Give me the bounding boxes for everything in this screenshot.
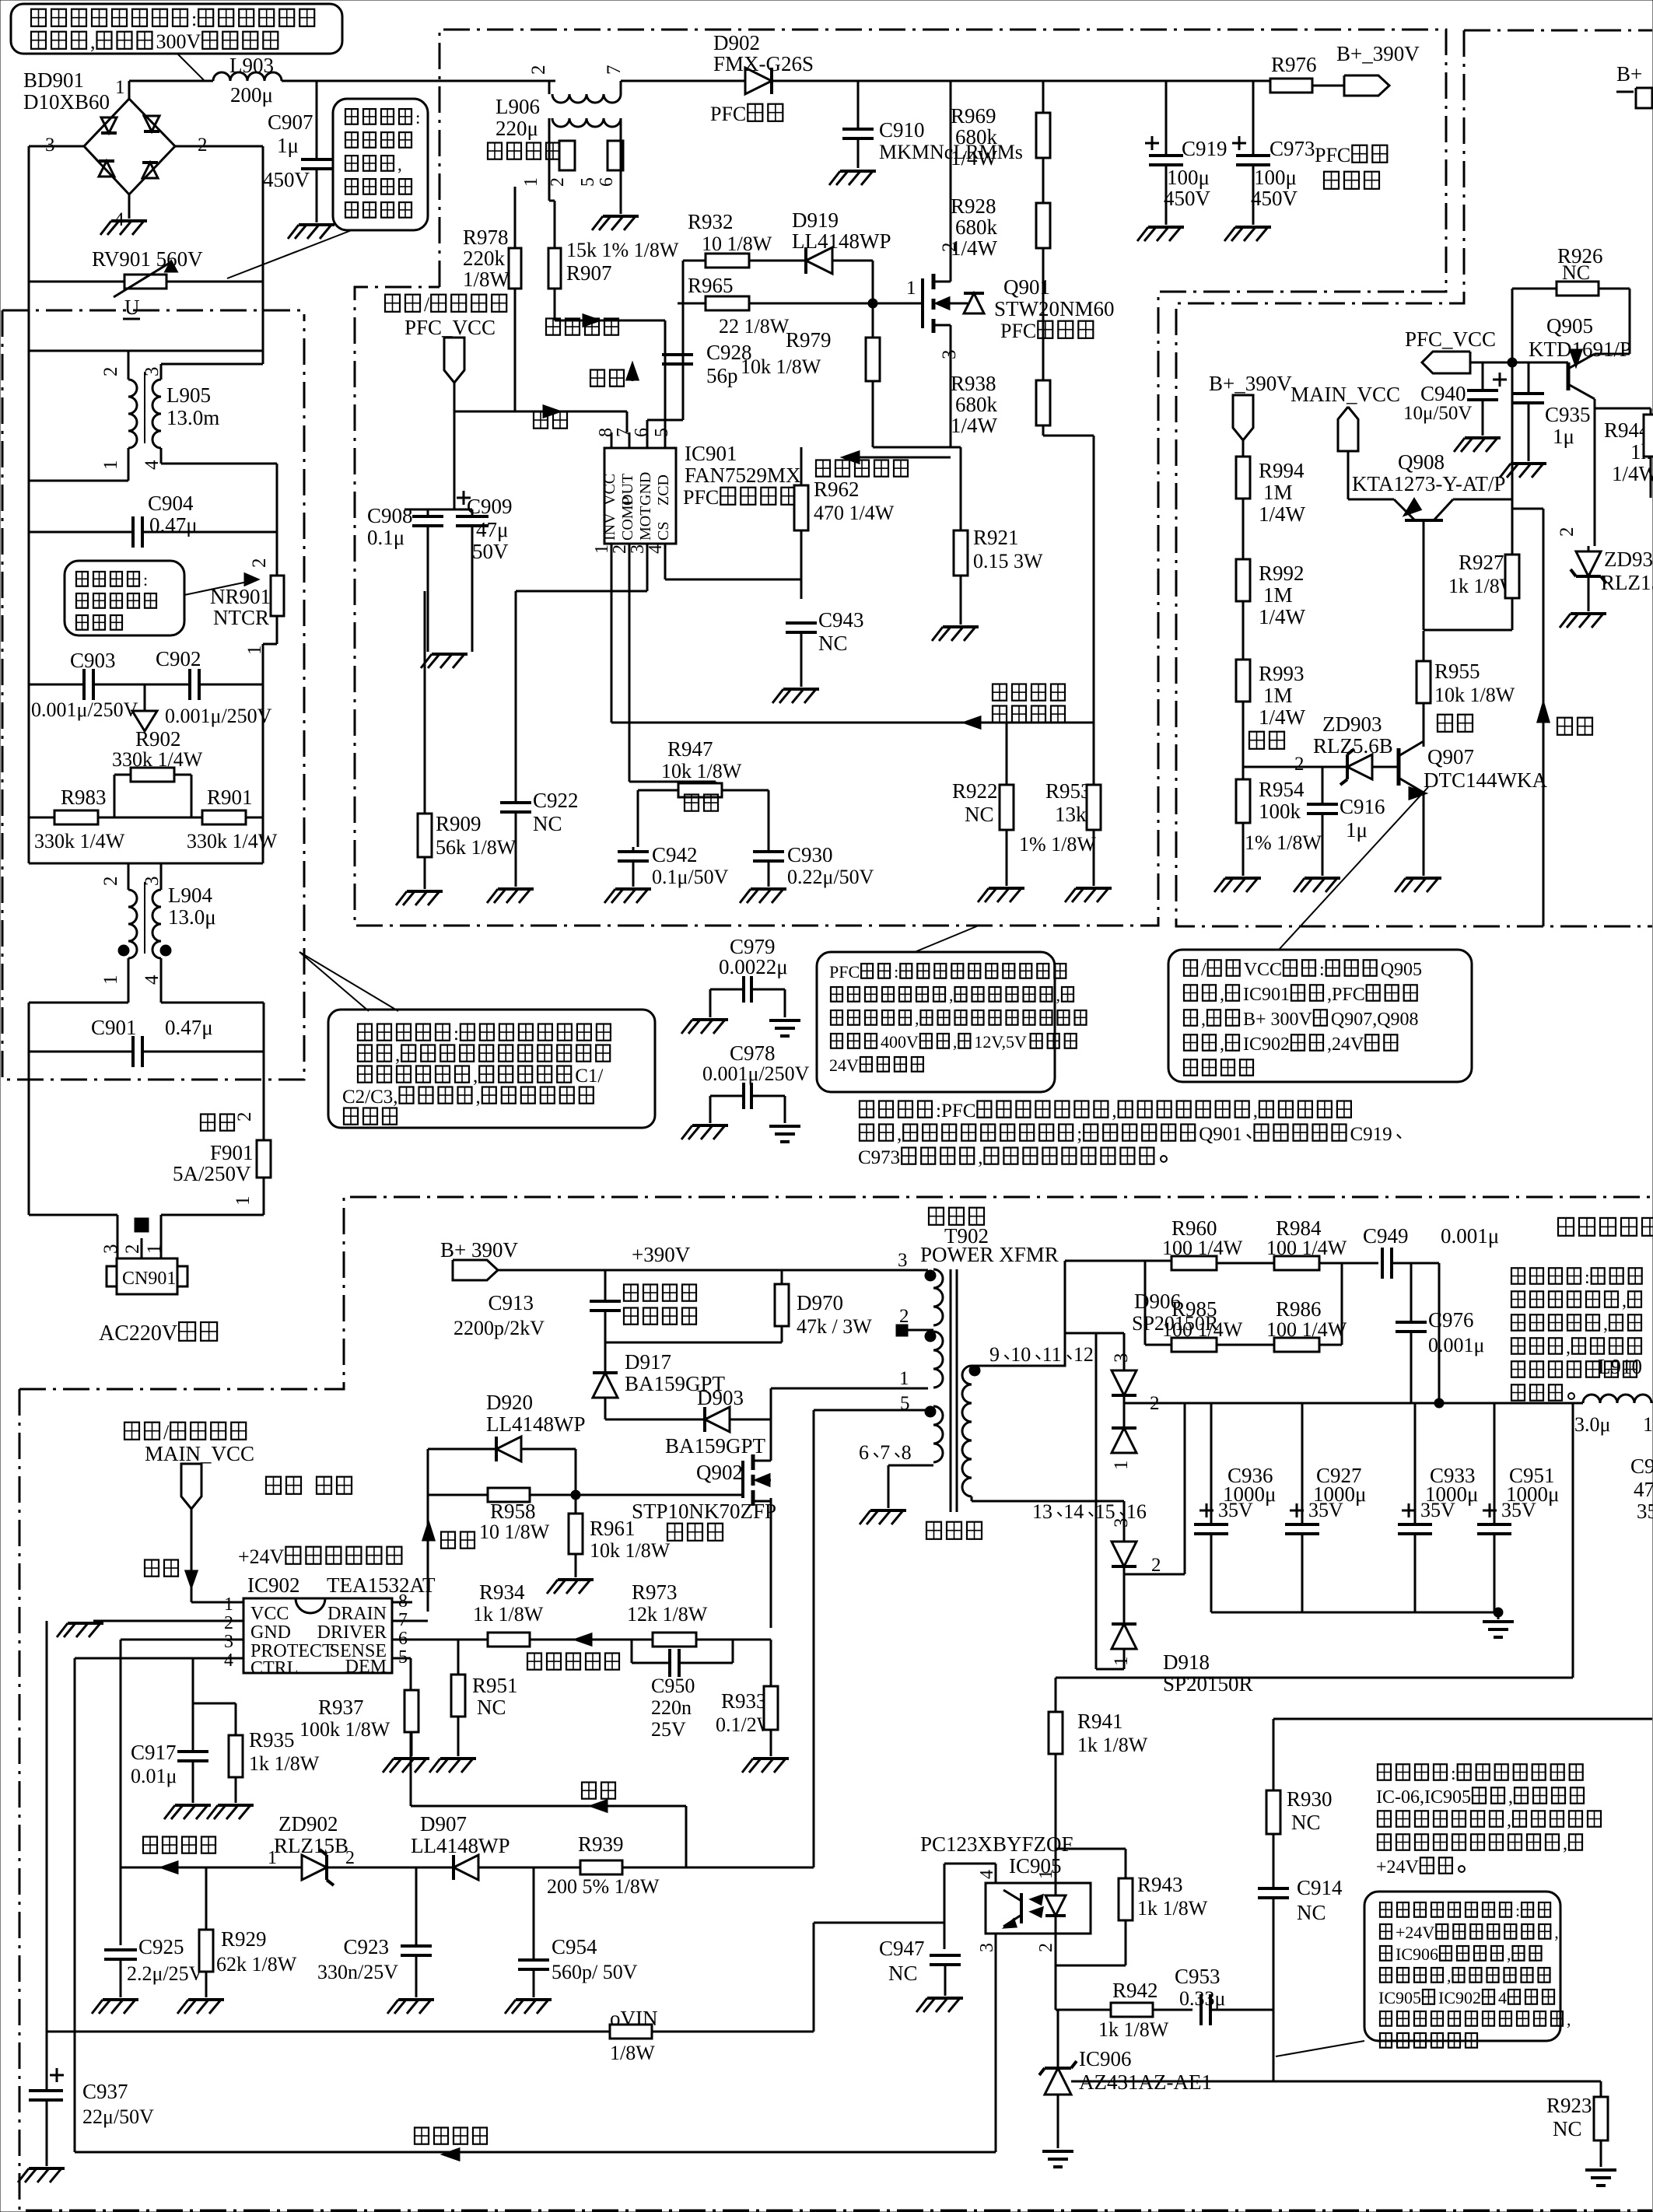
svg-text:25V: 25V: [651, 1718, 686, 1741]
transistor Q901 PFC MOSFET: [906, 243, 1115, 360]
svg-text:2: 2: [1557, 527, 1578, 537]
ground: [1560, 614, 1606, 628]
svg-text:IC906: IC906: [1396, 1944, 1438, 1964]
svg-text:1/4W: 1/4W: [951, 414, 998, 437]
capacitor C935: [1513, 362, 1591, 461]
resistor R961: [569, 1495, 671, 1577]
svg-text:,: ,: [397, 155, 402, 174]
svg-text:,: ,: [476, 1087, 481, 1108]
svg-text:100μ: 100μ: [1167, 166, 1210, 189]
svg-text:2: 2: [100, 877, 121, 887]
svg-text:NC: NC: [818, 632, 848, 655]
resistor R909: [418, 591, 517, 889]
svg-text:D902: D902: [713, 31, 760, 54]
wire: [29, 1215, 264, 1258]
ground: [487, 889, 534, 903]
svg-text:1: 1: [1111, 1657, 1132, 1667]
svg-text:1: 1: [1036, 1870, 1056, 1879]
svg-text:35V: 35V: [1218, 1499, 1253, 1521]
svg-text:0.001μ: 0.001μ: [1441, 1224, 1499, 1248]
capacitor C923: [317, 1867, 432, 1997]
section boundary: EMI filter block: [2, 310, 304, 1080]
ground: [681, 1020, 728, 1034]
svg-text:C935: C935: [1545, 403, 1591, 426]
resistor R994: [1236, 440, 1306, 526]
svg-text:9: 9: [989, 1343, 1000, 1366]
resistor oVIN 1/8W: [610, 2007, 658, 2064]
callout: mains rectifier filter note: [11, 4, 342, 80]
svg-text:/: /: [163, 1421, 170, 1444]
svg-text:35V: 35V: [1637, 1500, 1653, 1523]
resistor R927: [1448, 551, 1519, 630]
svg-text:,: ,: [1622, 1291, 1627, 1311]
resistor R960: [1162, 1216, 1243, 1270]
wire: [605, 1342, 782, 1372]
svg-text:4: 4: [977, 1870, 997, 1879]
resistor R926: [1512, 244, 1630, 362]
svg-text:13.0m: 13.0m: [166, 406, 219, 429]
svg-text:56p: 56p: [706, 364, 738, 387]
svg-text:IC-06,IC905: IC-06,IC905: [1376, 1787, 1471, 1808]
svg-text:,: ,: [1603, 1314, 1608, 1335]
wire: IC902 pin stubs: [75, 1587, 428, 2152]
capacitor C937 electrolytic: [29, 1612, 154, 2166]
connector CN901: [100, 1244, 187, 1295]
svg-text:R907: R907: [566, 261, 612, 285]
wire: [29, 351, 263, 481]
capacitor C976: [1396, 1263, 1484, 1403]
ground: [860, 1510, 906, 1524]
svg-text:D919: D919: [792, 208, 839, 232]
svg-text:RLZ5.6B: RLZ5.6B: [1313, 734, 1393, 758]
svg-text:C909: C909: [467, 495, 513, 518]
capacitor C973 electrolytic: [1232, 81, 1315, 225]
svg-text:4: 4: [224, 1650, 233, 1671]
svg-text:,: ,: [1201, 1010, 1206, 1030]
wire: [621, 80, 1271, 82]
svg-text:R994: R994: [1259, 459, 1305, 482]
svg-text:C908: C908: [367, 504, 413, 527]
resistor R901: [114, 786, 278, 852]
diode D907: [411, 1812, 814, 1880]
svg-text:DRAIN: DRAIN: [327, 1604, 387, 1624]
svg-text::: :: [454, 1024, 459, 1045]
svg-text:C950: C950: [651, 1675, 695, 1697]
resistor R930: [1266, 1719, 1333, 1888]
svg-text:Q905: Q905: [1381, 960, 1422, 980]
svg-text:IC902: IC902: [1243, 1034, 1290, 1055]
svg-text:2200p/2kV: 2200p/2kV: [454, 1317, 545, 1339]
zener ZD903: [1243, 712, 1399, 785]
svg-text:F901: F901: [210, 1141, 254, 1164]
wire: D918 output to rail: [1124, 1403, 1185, 1574]
svg-text:1/8W: 1/8W: [610, 2042, 655, 2064]
svg-text:,24V: ,24V: [1327, 1034, 1364, 1055]
wire: SENSE row: [392, 1639, 771, 1640]
svg-text:14: 14: [1063, 1500, 1084, 1523]
svg-text:+24V: +24V: [1396, 1923, 1434, 1942]
svg-text:IC901: IC901: [685, 442, 737, 465]
svg-text:680k: 680k: [955, 215, 998, 239]
svg-text:IC901: IC901: [1243, 985, 1290, 1005]
svg-text:0.001μ: 0.001μ: [1428, 1334, 1484, 1356]
svg-text:R921: R921: [973, 526, 1019, 549]
svg-text:VCC: VCC: [1244, 960, 1282, 980]
svg-text:1k 1/8W: 1k 1/8W: [1137, 1897, 1208, 1920]
label: supply down arrow: [145, 1509, 197, 1587]
svg-text:R976: R976: [1271, 53, 1317, 76]
svg-text:0.47μ: 0.47μ: [165, 1016, 213, 1039]
ground: [772, 689, 819, 703]
bridge rectifier BD901: [23, 68, 208, 230]
svg-text:1: 1: [115, 77, 125, 98]
capacitor C914: [1258, 1876, 1343, 2010]
dual diode D918 SP20150R: [1096, 1333, 1253, 1696]
ground: [1065, 888, 1112, 902]
svg-text:10k 1/8W: 10k 1/8W: [661, 760, 742, 782]
svg-text:R938: R938: [951, 372, 996, 395]
wire: ref row: [1071, 2081, 1650, 2083]
svg-text:,: ,: [1112, 1101, 1116, 1122]
ground: [429, 1759, 476, 1773]
wire: [647, 261, 683, 432]
capacitor C932: [1630, 1454, 1653, 1523]
svg-text::: :: [1319, 960, 1325, 980]
resistor R935: [193, 1703, 320, 1803]
capacitor C930: [753, 843, 874, 888]
svg-text:U: U: [124, 296, 140, 319]
svg-text:2: 2: [548, 177, 568, 187]
svg-text:ZD931: ZD931: [1604, 548, 1653, 571]
wire: output voltage sample row: [611, 562, 1094, 723]
svg-text:R943: R943: [1137, 1873, 1183, 1896]
wire: [771, 1388, 928, 1461]
svg-text:CN901: CN901: [122, 1269, 176, 1289]
resistor R934: [473, 1580, 544, 1647]
IC906 AZ431AZ shunt regulator: [1039, 1965, 1212, 2148]
svg-text:4: 4: [142, 975, 163, 985]
svg-text:11: 11: [1042, 1343, 1062, 1366]
svg-text:PFC: PFC: [683, 486, 719, 509]
ground: [1137, 227, 1184, 241]
svg-text:200 5% 1/8W: 200 5% 1/8W: [547, 1875, 660, 1898]
svg-text:RLZ15B: RLZ15B: [274, 1834, 348, 1857]
svg-text:C901: C901: [91, 1016, 137, 1039]
svg-text:2.2μ/25V: 2.2μ/25V: [127, 1962, 204, 1985]
resistor R954: [1236, 767, 1322, 876]
svg-text:R953: R953: [1045, 779, 1091, 803]
svg-text:PFC: PFC: [1000, 320, 1036, 342]
resistor R947 timing: [638, 737, 769, 847]
svg-text:1: 1: [224, 1594, 233, 1615]
svg-text:R942: R942: [1112, 1979, 1158, 2002]
wire: oVIN row: [47, 1864, 996, 2032]
capacitor C949: [1363, 1224, 1499, 1403]
svg-text:PFC: PFC: [1315, 144, 1350, 166]
svg-text:;: ;: [1077, 1124, 1082, 1145]
ground: [604, 889, 651, 903]
earth symbol: [132, 684, 157, 731]
resistor R993: [1236, 601, 1306, 767]
resistor R969: [951, 81, 1050, 203]
svg-text:1μ: 1μ: [277, 134, 299, 157]
svg-text:C902: C902: [156, 647, 201, 670]
ground: [92, 2000, 138, 2014]
resistor R943: [1056, 1849, 1208, 1965]
ground: [932, 627, 979, 641]
svg-text:15k 1% 1/8W: 15k 1% 1/8W: [566, 239, 679, 261]
svg-text:,: ,: [1567, 2010, 1571, 2029]
capacitor C951 electrolytic: [1477, 1403, 1559, 1612]
transistor Q902 STP10NK70ZFP: [632, 1454, 776, 1541]
svg-text:1M: 1M: [1263, 684, 1293, 707]
capacitor C933 electrolytic: [1398, 1403, 1478, 1612]
svg-text:10k 1/8W: 10k 1/8W: [1434, 684, 1515, 706]
section boundary: VCC control block: [1176, 30, 1652, 926]
ground: [1500, 464, 1546, 478]
svg-text:Q905: Q905: [1546, 314, 1593, 338]
resistor R922: [952, 723, 1014, 886]
capacitor C936 electrolytic: [1194, 1403, 1276, 1612]
transformer T902 labels: [920, 1208, 1059, 1539]
svg-text:560p/ 50V: 560p/ 50V: [552, 1961, 638, 1983]
svg-text:DEM: DEM: [345, 1657, 387, 1677]
svg-text:R993: R993: [1259, 662, 1305, 685]
section boundary: main converter block: [19, 1197, 1652, 2210]
capacitor C908: [367, 504, 454, 652]
ground: [1585, 2170, 1616, 2186]
resistor D970 damper: [775, 1270, 872, 1342]
resistor R953: [1019, 723, 1101, 886]
svg-text:C910: C910: [879, 118, 925, 142]
svg-text:R929: R929: [221, 1927, 267, 1951]
ground: [740, 889, 786, 903]
svg-text:L904: L904: [168, 884, 212, 907]
svg-text:2: 2: [234, 1112, 255, 1122]
svg-text:Q907,Q908: Q907,Q908: [1331, 1010, 1419, 1030]
svg-text:,: ,: [473, 1066, 478, 1087]
ground: [916, 1998, 963, 2012]
svg-text:FAN7529MX: FAN7529MX: [685, 464, 801, 487]
svg-text:0.001μ/250V: 0.001μ/250V: [165, 705, 272, 727]
svg-text::: :: [1585, 1268, 1590, 1288]
label: regulator protect: [266, 1477, 352, 1494]
ground: [681, 1125, 728, 1139]
diode D917: [593, 1350, 726, 1419]
svg-text:R954: R954: [1259, 778, 1305, 801]
svg-text:450V: 450V: [263, 168, 310, 191]
svg-text:D906: D906: [1134, 1290, 1181, 1313]
capacitor C943: [786, 599, 864, 687]
ground: [1224, 227, 1271, 241]
svg-text:BA159GPT: BA159GPT: [665, 1434, 766, 1458]
svg-text:100μ: 100μ: [1254, 166, 1297, 189]
resistor R965: [665, 274, 923, 338]
svg-text:4: 4: [1498, 1988, 1507, 2007]
svg-text:VCC: VCC: [601, 474, 618, 506]
svg-text:NC: NC: [1297, 1901, 1326, 1924]
svg-text:2: 2: [345, 1848, 355, 1868]
svg-text:0.1μ: 0.1μ: [367, 526, 404, 549]
svg-text:47k / 3W: 47k / 3W: [797, 1315, 872, 1338]
svg-text:IC905: IC905: [1378, 1988, 1421, 2007]
resistor R921: [954, 447, 1043, 625]
svg-text::: :: [1451, 1764, 1456, 1784]
ground: [18, 2168, 65, 2182]
svg-text:ZD903: ZD903: [1322, 712, 1382, 736]
svg-text:PFC_VCC: PFC_VCC: [1405, 327, 1496, 351]
svg-text:3: 3: [1111, 1353, 1132, 1363]
ground: [1395, 878, 1441, 892]
svg-text:D918: D918: [1163, 1650, 1210, 1674]
resistor R939: [547, 1832, 660, 1898]
net flag PFC_VCC left: [1405, 327, 1496, 373]
svg-text::: :: [143, 570, 148, 590]
ground: [829, 171, 876, 185]
wire: [129, 80, 555, 82]
wire: [454, 383, 627, 509]
svg-text:6: 6: [859, 1441, 869, 1464]
svg-text:,: ,: [1507, 1811, 1511, 1831]
svg-text:,: ,: [1563, 1834, 1567, 1854]
svg-text:24V: 24V: [829, 1055, 859, 1075]
svg-text:LL4148WP: LL4148WP: [486, 1412, 586, 1436]
svg-text:R939: R939: [578, 1832, 624, 1856]
svg-text:0.0022μ: 0.0022μ: [719, 955, 788, 978]
resistor R976: [1270, 53, 1344, 93]
svg-text:POWER XFMR: POWER XFMR: [920, 1243, 1059, 1266]
wire: opto LED cathode to R942: [1056, 2009, 1111, 2011]
svg-text:680k: 680k: [955, 125, 998, 149]
svg-text:13k: 13k: [1055, 803, 1087, 826]
capacitor C947: [879, 1937, 961, 1996]
ground: [387, 2000, 434, 2014]
svg-text:62k 1/8W: 62k 1/8W: [216, 1953, 297, 1976]
wire: [549, 118, 621, 134]
label: on/off control PFC_VCC: [385, 293, 506, 339]
ground: [164, 1805, 211, 1819]
svg-text:8: 8: [902, 1441, 912, 1464]
svg-text:470 1/4W: 470 1/4W: [814, 502, 895, 524]
svg-text:,: ,: [1507, 1944, 1511, 1964]
ground: [288, 225, 334, 239]
dual diode D906 SP20150R: [1111, 1290, 1219, 1501]
svg-text:C913: C913: [488, 1291, 534, 1314]
svg-text:3: 3: [224, 1632, 233, 1652]
svg-text:,: ,: [915, 1009, 919, 1028]
svg-text:7: 7: [880, 1441, 890, 1464]
svg-text:100k: 100k: [1259, 800, 1301, 823]
diode D919: [792, 208, 891, 303]
svg-text:B+_390V: B+_390V: [1336, 42, 1420, 65]
inductor L910: [1574, 1355, 1653, 1436]
wire: [404, 509, 472, 511]
svg-text:C1/: C1/: [575, 1066, 603, 1087]
svg-text:Q907: Q907: [1427, 745, 1474, 768]
resistor R932: [683, 210, 806, 268]
resistor R942: [1098, 1979, 1192, 2041]
resistor R973: [627, 1580, 708, 1647]
svg-text:B+_390V: B+_390V: [1209, 372, 1292, 395]
resistor R986: [1217, 1263, 1347, 1352]
svg-text:Q902: Q902: [696, 1461, 743, 1484]
svg-text:CTRL: CTRL: [250, 1658, 298, 1678]
svg-text:C940: C940: [1420, 382, 1466, 405]
capacitor C978: [702, 1041, 810, 1123]
svg-text:470μ: 470μ: [1634, 1478, 1653, 1501]
svg-text:,: ,: [1253, 1101, 1258, 1122]
svg-text:R962: R962: [814, 478, 860, 501]
svg-text:3: 3: [977, 1943, 997, 1952]
svg-text:1/4W: 1/4W: [951, 146, 998, 170]
svg-text:C973: C973: [858, 1147, 900, 1168]
svg-text:100k 1/8W: 100k 1/8W: [299, 1718, 390, 1741]
svg-text:C978: C978: [730, 1041, 776, 1065]
ground: [742, 1759, 789, 1773]
svg-text:INV: INV: [601, 513, 618, 541]
svg-text:TEA1532AT: TEA1532AT: [327, 1573, 436, 1597]
capacitor C904: [29, 492, 277, 548]
svg-text:OUT: OUT: [619, 474, 636, 506]
svg-text:PC123XBYFZOF: PC123XBYFZOF: [920, 1832, 1073, 1856]
svg-text:STW20NM60: STW20NM60: [994, 297, 1115, 320]
label: PFC bulk caps: [1315, 144, 1387, 189]
svg-text:1/4W: 1/4W: [1259, 502, 1306, 526]
transformer T902 core: [951, 1269, 957, 1512]
ground: [383, 1759, 429, 1773]
svg-text:R973: R973: [632, 1580, 678, 1604]
svg-text:,: ,: [1566, 1338, 1571, 1358]
svg-text:,: ,: [1220, 1034, 1224, 1055]
capacitor C942: [618, 843, 729, 888]
svg-text:3.0μ: 3.0μ: [1574, 1413, 1610, 1436]
svg-text:ZD902: ZD902: [278, 1812, 338, 1836]
resistor R978: [463, 187, 540, 411]
svg-text:SP20150R: SP20150R: [1163, 1672, 1253, 1696]
svg-text:C925: C925: [138, 1935, 184, 1958]
label: AC220V input: [99, 1321, 217, 1346]
inductor L906 aux winding pins: [521, 134, 623, 214]
transformer T902 aux winding 5-678: [814, 1403, 943, 1508]
resistor R992: [1236, 499, 1306, 628]
svg-text:CS: CS: [655, 522, 672, 541]
svg-text:C954: C954: [552, 1935, 597, 1958]
ground: [592, 216, 639, 230]
net flag MAIN_VCC: [1291, 383, 1400, 451]
label: feedback: [582, 1783, 615, 1812]
svg-text:D907: D907: [420, 1812, 467, 1836]
inductor L903: [213, 54, 282, 107]
svg-text:1μ: 1μ: [1553, 425, 1574, 448]
svg-text:NC: NC: [888, 1962, 918, 1985]
svg-text:,: ,: [953, 1032, 958, 1052]
resistor R937: [299, 1658, 419, 1756]
svg-text:C922: C922: [533, 789, 579, 812]
svg-text:R902: R902: [135, 727, 181, 751]
capacitor C979: [710, 935, 788, 1017]
capacitor C954: [518, 1867, 638, 1997]
IC901 FAN7529MX PFC driver: [592, 428, 801, 562]
svg-text:1k 1/8W: 1k 1/8W: [1077, 1734, 1148, 1756]
svg-text:C903: C903: [70, 649, 116, 672]
svg-text:,: ,: [90, 30, 96, 53]
svg-text:AC220V: AC220V: [99, 1321, 177, 1346]
svg-text:2: 2: [1036, 1943, 1056, 1952]
svg-text:2: 2: [528, 65, 549, 75]
net flag B+_390V: [1336, 42, 1420, 96]
ground: [1483, 1622, 1514, 1637]
svg-text:R923: R923: [1546, 2094, 1592, 2117]
